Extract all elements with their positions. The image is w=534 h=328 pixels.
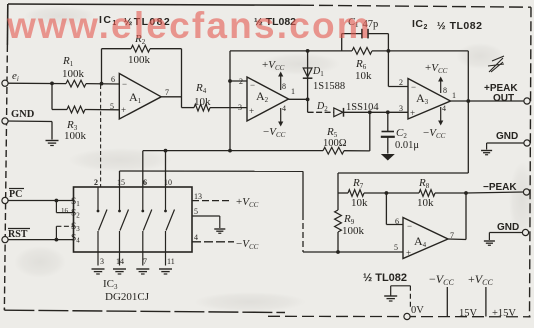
junction R5 branch bbox=[368, 110, 372, 114]
svg-text:5: 5 bbox=[194, 207, 198, 216]
-Vcc stub A3 bbox=[440, 107, 442, 121]
dashed outer border left bbox=[6, 4, 8, 45]
wire PC to S2 bbox=[55, 201, 57, 213]
wire R2 top left bbox=[102, 48, 132, 50]
junction R1/R2/pin6 bbox=[100, 82, 104, 86]
svg-text:6: 6 bbox=[111, 75, 115, 84]
op-amp A3 bbox=[408, 79, 451, 120]
svg-text:6: 6 bbox=[143, 178, 147, 187]
svg-text:RST: RST bbox=[8, 229, 28, 240]
svg-text:OUT: OUT bbox=[493, 93, 514, 104]
terminal +PEAK OUT bbox=[524, 98, 530, 104]
terminal -PEAK bbox=[523, 189, 529, 195]
junction PC branch bbox=[55, 199, 59, 203]
terminal 0V bbox=[404, 313, 410, 319]
wire S4 column bbox=[165, 151, 167, 187]
svg-text:11: 11 bbox=[167, 257, 175, 266]
wire A1 out corner bbox=[182, 107, 195, 109]
wire to D2 bbox=[308, 111, 334, 113]
resistor R5 body bbox=[323, 147, 344, 154]
svg-text:GND: GND bbox=[11, 109, 35, 120]
resistor R1 body bbox=[66, 80, 86, 87]
svg-text:14: 14 bbox=[116, 257, 124, 266]
svg-text:0.01μ: 0.01μ bbox=[395, 140, 419, 151]
svg-text:7: 7 bbox=[165, 88, 169, 97]
wire R8 right bbox=[435, 192, 466, 194]
svg-text:5: 5 bbox=[110, 102, 114, 111]
wire -Vcc down bbox=[446, 287, 448, 317]
dashed outer border top bbox=[8, 4, 300, 5]
svg-text:+: + bbox=[410, 108, 415, 118]
wire R7 left bbox=[338, 192, 348, 194]
+Vcc stub A2 bbox=[280, 76, 282, 90]
svg-text:−: − bbox=[411, 82, 416, 92]
ground at GND input bbox=[46, 140, 59, 142]
wire D2 to A3 pin3 bbox=[344, 111, 409, 113]
wire feedback horizontal rail bbox=[338, 172, 468, 174]
svg-text:16: 16 bbox=[61, 207, 69, 215]
junction A2 node / R5 line bbox=[228, 149, 232, 153]
svg-text:DG201CJ: DG201CJ bbox=[105, 291, 150, 303]
junction D1 top bbox=[306, 49, 310, 53]
resistor R9 vertical bbox=[337, 193, 339, 210]
wire A4 pin6 vertical bbox=[385, 193, 387, 225]
svg-text:100k: 100k bbox=[342, 225, 365, 237]
svg-text:100k: 100k bbox=[64, 130, 87, 142]
svg-text:−: − bbox=[250, 80, 255, 90]
resistor R6 body bbox=[352, 48, 372, 55]
wire S3 column bbox=[142, 151, 144, 187]
svg-text:PC: PC bbox=[9, 189, 22, 200]
scribble mark bbox=[488, 56, 504, 72]
svg-text:10k: 10k bbox=[417, 197, 434, 209]
IC3 pin13 wire bbox=[192, 200, 232, 202]
ground IC3 pin5 bbox=[214, 228, 225, 230]
svg-text:15V: 15V bbox=[459, 308, 478, 319]
grounds under IC3 bbox=[92, 268, 105, 270]
dashed outer border right bbox=[530, 7, 532, 317]
op-amp A1 bbox=[119, 74, 161, 120]
svg-text:13: 13 bbox=[194, 192, 202, 201]
svg-text:−: − bbox=[122, 79, 127, 89]
wire +Vcc down bbox=[485, 287, 487, 317]
diode D2 bbox=[334, 108, 343, 117]
svg-text:8: 8 bbox=[443, 86, 447, 95]
svg-text:1: 1 bbox=[291, 87, 295, 96]
wire reset line to S1 (dashed) bbox=[100, 85, 102, 187]
ground right 2 bbox=[484, 240, 495, 242]
svg-text:1S1588: 1S1588 bbox=[313, 81, 345, 92]
wire RST to S3 bbox=[55, 226, 57, 239]
junction feedback tap bbox=[466, 99, 470, 103]
wire hold to R5 bbox=[369, 112, 371, 151]
resistor R2 body bbox=[131, 45, 150, 52]
IC3 pin5 wire bbox=[192, 215, 220, 217]
svg-text:3: 3 bbox=[238, 103, 242, 112]
svg-text:−: − bbox=[407, 221, 412, 231]
dashed outer border bottom-left segment bbox=[3, 308, 5, 310]
junction RST branch bbox=[55, 238, 59, 242]
wire to R3 bbox=[52, 109, 67, 111]
junction A4 out bbox=[464, 191, 468, 195]
op-amp A2 bbox=[247, 77, 289, 121]
wire A2- node to R6 line bbox=[230, 50, 352, 52]
+Vcc stub A3 bbox=[440, 81, 442, 93]
junction A4 pin6 bbox=[385, 191, 389, 195]
wire GND right 2 bbox=[489, 232, 522, 234]
wire down to D2 bbox=[307, 99, 309, 112]
capacitor C1 loop right bbox=[387, 34, 389, 51]
wire GND right 1 bbox=[487, 142, 524, 144]
svg-text:0V: 0V bbox=[411, 305, 424, 316]
svg-text:6: 6 bbox=[395, 217, 399, 226]
terminal RST bbox=[2, 237, 8, 243]
ground right 1 bbox=[481, 150, 492, 152]
wire rail down to R7 bbox=[337, 173, 339, 193]
wire A4 output bbox=[448, 238, 466, 241]
wire R6 right bbox=[372, 50, 468, 52]
wire GND input bbox=[5, 120, 52, 123]
svg-text:2: 2 bbox=[399, 78, 403, 87]
svg-text:2: 2 bbox=[94, 178, 98, 187]
resistor R3 body bbox=[67, 106, 85, 113]
wire R4 to A2 pin3 bbox=[210, 107, 247, 109]
svg-text:10k: 10k bbox=[194, 96, 211, 108]
wire A1 output bbox=[161, 96, 181, 98]
wire R7-R8 bbox=[364, 192, 419, 194]
terminal ei bbox=[2, 80, 8, 86]
svg-text:½ TL082: ½ TL082 bbox=[363, 272, 407, 284]
wire -PEAK bbox=[466, 192, 524, 193]
watermark www.elecfans.com bbox=[7, 5, 534, 46]
wire R3 to A1 pin5 bbox=[85, 109, 119, 111]
wire feedback vertical bbox=[467, 51, 469, 173]
diode D1 bbox=[307, 51, 309, 100]
junction R9 bottom bbox=[336, 250, 340, 254]
svg-text:100k: 100k bbox=[62, 68, 85, 80]
wire A4 pin5 line bbox=[303, 251, 403, 253]
svg-text:10k: 10k bbox=[355, 70, 372, 82]
op-amp A4 bbox=[403, 218, 448, 259]
-Vcc stub A2 bbox=[280, 108, 282, 122]
ground C2 bbox=[381, 154, 395, 161]
svg-text:3: 3 bbox=[100, 257, 104, 266]
junction pin2 bbox=[228, 79, 232, 83]
svg-text:8: 8 bbox=[282, 82, 286, 91]
resistor R4 body bbox=[194, 104, 210, 111]
IC3 box bbox=[74, 187, 193, 252]
wire feedback vertical left bbox=[101, 49, 103, 84]
terminal GND input bbox=[2, 118, 8, 124]
svg-text:10: 10 bbox=[164, 178, 172, 187]
junction C1 right bbox=[387, 49, 391, 53]
switches S1-S4 inside IC3 bbox=[97, 187, 99, 211]
terminal PC bbox=[2, 197, 8, 203]
capacitor C1 wires bbox=[342, 33, 362, 35]
wire R1 to A1 pin6 bbox=[86, 83, 119, 85]
ground A4 area bbox=[384, 295, 397, 297]
wire R2 top right bbox=[150, 48, 182, 50]
junction ei branch bbox=[50, 82, 54, 86]
wire A2 inverting node vertical bbox=[229, 51, 231, 151]
svg-text:+15V: +15V bbox=[492, 308, 516, 319]
node ei input wire bbox=[5, 82, 66, 84]
junction C2 branch bbox=[386, 110, 390, 114]
svg-text:7: 7 bbox=[143, 257, 147, 266]
svg-text:15: 15 bbox=[117, 178, 125, 187]
wire RST bbox=[5, 239, 74, 241]
svg-text:4: 4 bbox=[442, 104, 446, 113]
svg-text:4: 4 bbox=[194, 233, 198, 242]
capacitor C1 plates bbox=[361, 29, 363, 39]
wire A2 output bbox=[289, 98, 308, 100]
dashed outer border bottom-right segment bbox=[268, 315, 531, 318]
resistor R8 body bbox=[419, 190, 435, 197]
IC3 pin4 wire bbox=[192, 241, 234, 243]
svg-text:+: + bbox=[121, 105, 126, 115]
svg-text:4: 4 bbox=[282, 104, 286, 113]
svg-text:+: + bbox=[406, 248, 411, 258]
wire feedback vertical right bbox=[181, 49, 183, 108]
junction A2 out / D1 bbox=[306, 98, 310, 102]
wire A2 pin2 stub bbox=[230, 80, 247, 82]
wire R5 line left bbox=[143, 150, 323, 152]
svg-text:GND: GND bbox=[496, 131, 518, 142]
capacitor C1 loop left bbox=[341, 34, 343, 51]
junction pin10 column bbox=[164, 149, 168, 153]
capacitor C2 bbox=[387, 112, 389, 131]
wire A3 output to +PEAK OUT bbox=[451, 100, 525, 102]
svg-text:1: 1 bbox=[452, 91, 456, 100]
svg-text:3: 3 bbox=[399, 104, 403, 113]
wire S2 net bbox=[119, 171, 121, 187]
terminal GND right 1 bbox=[524, 140, 530, 146]
svg-text:+: + bbox=[249, 106, 254, 116]
wire ei branch down bbox=[51, 83, 53, 109]
wire R5 right bbox=[344, 150, 370, 152]
terminal GND right 2 bbox=[522, 229, 528, 235]
resistor R7 body bbox=[348, 190, 364, 197]
svg-text:5: 5 bbox=[394, 243, 398, 252]
wire PC bbox=[5, 200, 74, 202]
svg-text:1SS104: 1SS104 bbox=[346, 102, 379, 113]
svg-text:100k: 100k bbox=[128, 54, 151, 66]
svg-text:10k: 10k bbox=[351, 197, 368, 209]
svg-text:100Ω: 100Ω bbox=[323, 138, 347, 149]
wire A3 pin2 from C1 loop bbox=[387, 51, 389, 87]
